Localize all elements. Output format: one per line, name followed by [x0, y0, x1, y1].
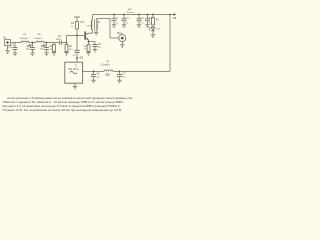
- svg-text:Питание +5 В. Ток потребления: Питание +5 В. Ток потребления не более 1…: [3, 108, 123, 112]
- svg-text:6800: 6800: [56, 39, 62, 41]
- svg-text:+5В: +5В: [79, 57, 84, 60]
- svg-text:50 мГц: 50 мГц: [69, 67, 79, 71]
- svg-text:80 мкГц: 80 мкГц: [127, 12, 135, 14]
- svg-text:Вых.: Вых.: [117, 31, 123, 35]
- svg-text:0,38мкГн: 0,38мкГн: [19, 38, 29, 40]
- svg-text:0,38мкГн: 0,38мкГн: [34, 38, 44, 40]
- svg-text:1к: 1к: [71, 26, 73, 28]
- svg-text:0,3 мкГн: 0,3 мкГн: [101, 64, 111, 67]
- svg-text:VT1: VT1: [80, 21, 85, 24]
- svg-text:+5В: +5В: [172, 18, 177, 20]
- svg-text:Вх.: Вх.: [4, 36, 8, 39]
